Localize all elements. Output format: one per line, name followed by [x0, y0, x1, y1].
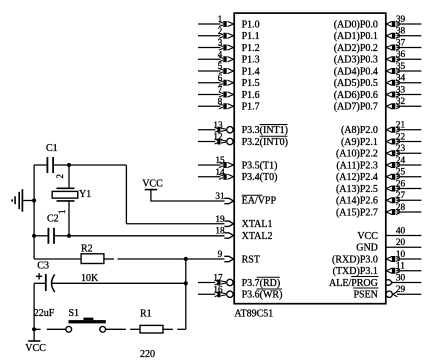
svg-text:7: 7 [218, 86, 223, 96]
svg-text:(AD2)P0.2: (AD2)P0.2 [334, 43, 378, 54]
svg-text:23: 23 [396, 144, 406, 154]
svg-text:P1.4: P1.4 [242, 66, 260, 77]
svg-text:3: 3 [218, 39, 223, 49]
svg-text:P3.5(T1): P3.5(T1) [242, 160, 278, 171]
svg-text:22uF: 22uF [34, 308, 55, 319]
svg-text:33: 33 [396, 85, 406, 95]
svg-text:17: 17 [213, 274, 223, 284]
svg-text:(AD7)P0.7: (AD7)P0.7 [334, 102, 378, 113]
svg-text:AT89C51: AT89C51 [234, 309, 273, 320]
svg-text:XTAL2: XTAL2 [242, 231, 273, 242]
svg-text:2: 2 [55, 174, 65, 179]
svg-text:(AD4)P0.4: (AD4)P0.4 [334, 66, 378, 77]
svg-text:(A9)P2.1: (A9)P2.1 [341, 137, 378, 148]
svg-text:RST: RST [242, 254, 260, 265]
svg-text:(TXD)P3.1: (TXD)P3.1 [333, 266, 378, 277]
svg-text:32: 32 [396, 97, 406, 107]
svg-text:(AD6)P0.6: (AD6)P0.6 [334, 90, 378, 101]
svg-text:(AD3)P0.3: (AD3)P0.3 [334, 55, 378, 66]
svg-text:(A14)P2.6: (A14)P2.6 [336, 196, 378, 207]
svg-text:4: 4 [218, 50, 223, 60]
svg-text:(AD5)P0.5: (AD5)P0.5 [334, 78, 378, 89]
svg-text:P1.1: P1.1 [242, 31, 260, 42]
svg-text:P3.2(INT0): P3.2(INT0) [242, 137, 288, 148]
svg-text:29: 29 [396, 285, 406, 295]
svg-text:16: 16 [213, 285, 223, 295]
svg-text:P1.3: P1.3 [242, 55, 260, 66]
svg-text:11: 11 [396, 262, 405, 272]
svg-text:P1.2: P1.2 [242, 43, 260, 54]
svg-text:P1.0: P1.0 [242, 19, 260, 30]
svg-text:22: 22 [396, 132, 406, 142]
svg-text:(A8)P2.0: (A8)P2.0 [341, 125, 378, 136]
svg-text:ALE/PROG: ALE/PROG [329, 278, 378, 289]
svg-text:18: 18 [215, 227, 225, 237]
svg-text:6: 6 [218, 74, 223, 84]
svg-text:(RXD)P3.0: (RXD)P3.0 [332, 254, 378, 265]
svg-text:P3.3(INT1): P3.3(INT1) [242, 125, 288, 136]
svg-text:8: 8 [218, 97, 223, 107]
svg-text:34: 34 [396, 74, 406, 84]
svg-text:5: 5 [218, 62, 223, 72]
svg-text:VCC: VCC [142, 178, 163, 189]
svg-text:30: 30 [396, 273, 406, 283]
svg-text:35: 35 [396, 62, 406, 72]
svg-text:(A11)P2.3: (A11)P2.3 [336, 160, 378, 171]
svg-text:(A10)P2.2: (A10)P2.2 [336, 149, 378, 160]
svg-text:P3.4(T0): P3.4(T0) [242, 172, 278, 183]
svg-text:(A13)P2.5: (A13)P2.5 [336, 184, 378, 195]
svg-text:27: 27 [396, 191, 406, 201]
svg-text:C3: C3 [37, 260, 49, 271]
svg-text:Y1: Y1 [79, 189, 91, 200]
svg-text:(AD1)P0.1: (AD1)P0.1 [334, 31, 378, 42]
svg-text:26: 26 [396, 179, 406, 189]
svg-text:VCC: VCC [25, 343, 46, 354]
svg-text:20: 20 [396, 238, 406, 248]
svg-text:EA/VPP: EA/VPP [242, 196, 277, 207]
svg-text:P3.6(WR): P3.6(WR) [242, 290, 283, 301]
svg-text:220: 220 [140, 349, 155, 360]
svg-text:P1.7: P1.7 [242, 102, 260, 113]
svg-text:R1: R1 [140, 309, 152, 320]
svg-text:C1: C1 [46, 143, 58, 154]
svg-text:S1: S1 [69, 308, 80, 319]
svg-text:(A12)P2.4: (A12)P2.4 [336, 172, 378, 183]
svg-text:1: 1 [218, 15, 223, 25]
svg-text:P1.5: P1.5 [242, 78, 260, 89]
svg-text:2: 2 [218, 27, 223, 37]
svg-text:25: 25 [396, 168, 406, 178]
svg-text:24: 24 [396, 156, 406, 166]
svg-text:PSEN: PSEN [353, 290, 377, 301]
svg-text:13: 13 [213, 121, 223, 131]
svg-text:R2: R2 [81, 243, 93, 254]
svg-text:15: 15 [215, 156, 225, 166]
svg-text:(A15)P2.7: (A15)P2.7 [336, 207, 378, 218]
svg-text:14: 14 [215, 168, 225, 178]
svg-text:P1.6: P1.6 [242, 90, 260, 101]
svg-text:10: 10 [396, 250, 406, 260]
svg-text:37: 37 [396, 38, 406, 48]
svg-text:39: 39 [396, 15, 406, 25]
svg-text:10K: 10K [81, 273, 99, 284]
svg-text:(AD0)P0.0: (AD0)P0.0 [334, 19, 378, 30]
svg-text:12: 12 [213, 133, 223, 143]
svg-text:C2: C2 [47, 214, 59, 225]
svg-text:40: 40 [396, 226, 406, 236]
svg-text:36: 36 [396, 50, 406, 60]
svg-text:XTAL1: XTAL1 [242, 219, 273, 230]
svg-text:28: 28 [396, 203, 406, 213]
svg-text:21: 21 [396, 121, 406, 131]
svg-text:GND: GND [356, 243, 378, 254]
svg-text:38: 38 [396, 27, 406, 37]
svg-text:P3.7(RD): P3.7(RD) [242, 278, 281, 289]
svg-text:VCC: VCC [357, 231, 378, 242]
